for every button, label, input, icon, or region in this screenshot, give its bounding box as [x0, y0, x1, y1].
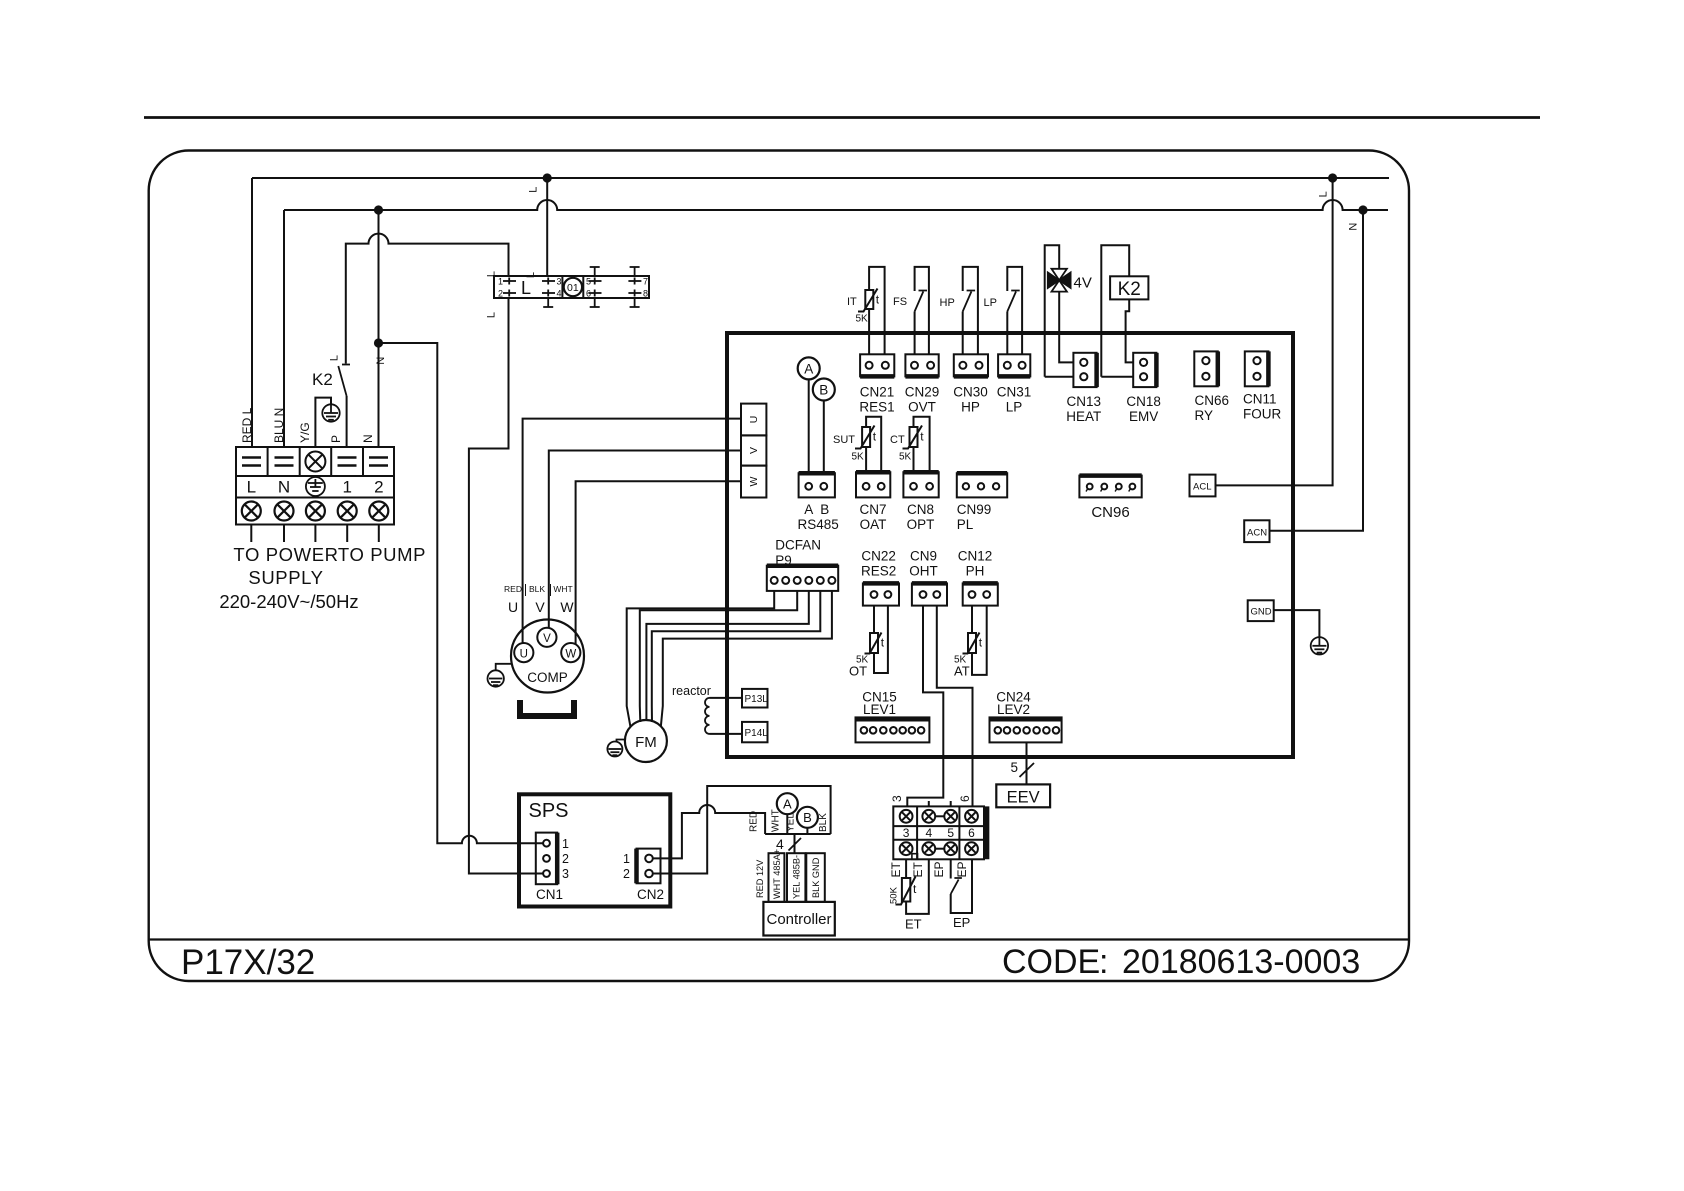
wire L bus dot down to fuse pin3 — [546, 178, 548, 276]
svg-text:LEV2: LEV2 — [997, 702, 1030, 717]
svg-text:OVT: OVT — [908, 400, 936, 415]
terminal box W on board — [741, 466, 766, 498]
wire CN9 pin2 to ET terminal 6 — [937, 606, 973, 807]
switch LP loop — [1007, 267, 1022, 354]
wire L bus — [252, 177, 1389, 179]
box P13L — [742, 689, 768, 708]
svg-text:220-240V~/50Hz: 220-240V~/50Hz — [219, 591, 358, 612]
fuse block stub terminals pins 5-8 and 4 — [543, 267, 639, 307]
box ACL — [1190, 475, 1216, 497]
relay coil K2 box — [1110, 276, 1148, 299]
svg-text:3: 3 — [890, 795, 904, 802]
svg-text:RES2: RES2 — [861, 564, 896, 579]
svg-text:CN2: CN2 — [637, 887, 664, 902]
svg-text:B: B — [820, 502, 829, 517]
svg-text:CN31: CN31 — [997, 385, 1032, 400]
reactor coil — [705, 698, 710, 734]
wire ACN to N bus — [1270, 210, 1364, 531]
svg-text:6: 6 — [958, 795, 972, 802]
svg-text:CN1: CN1 — [536, 887, 563, 902]
svg-text:L: L — [486, 312, 498, 318]
switch HP blade — [963, 291, 975, 312]
svg-text:B: B — [803, 810, 812, 825]
connector CN96 — [1079, 476, 1141, 498]
svg-text:Y/G: Y/G — [298, 422, 312, 443]
svg-text:ET: ET — [905, 917, 922, 932]
compressor COMP — [511, 620, 584, 693]
earth symbol at GND — [1311, 637, 1328, 655]
svg-text:2: 2 — [374, 478, 383, 497]
junction dot N branch — [374, 338, 383, 347]
svg-text:HP: HP — [940, 297, 955, 309]
wire COMP W — [576, 481, 741, 644]
svg-text:OHT: OHT — [909, 564, 938, 579]
svg-text:1: 1 — [498, 277, 503, 287]
svg-text:01: 01 — [567, 282, 579, 294]
fuse filter block FL — [494, 276, 649, 298]
svg-text:CN96: CN96 — [1091, 504, 1129, 521]
svg-text:HEAT: HEAT — [1066, 409, 1101, 424]
terminal block ET/EP top stubs — [928, 801, 930, 806]
svg-text:CN22: CN22 — [861, 549, 896, 564]
controller terminal boxes — [769, 853, 825, 902]
wire 4V left to CN13 pin2 — [1045, 376, 1074, 378]
svg-text:V: V — [748, 447, 760, 454]
thermistor OT loop — [874, 606, 888, 673]
svg-text:SPS: SPS — [529, 800, 569, 822]
svg-text:5: 5 — [586, 277, 591, 287]
svg-text:OAT: OAT — [860, 517, 887, 532]
wire N bus with hops — [284, 200, 1388, 210]
svg-text:CN12: CN12 — [958, 549, 993, 564]
svg-text:1: 1 — [562, 837, 569, 851]
svg-text:CN11: CN11 — [1243, 392, 1277, 407]
svg-text:6: 6 — [968, 826, 975, 840]
svg-text:SUT: SUT — [833, 434, 855, 446]
svg-text:L: L — [521, 278, 531, 298]
switch FS blade — [915, 291, 927, 312]
svg-text:1: 1 — [623, 852, 630, 866]
terminal block ET/EP screws row1 — [900, 810, 978, 823]
svg-text:WHT 485A+: WHT 485A+ — [772, 849, 782, 899]
svg-text:CN21: CN21 — [860, 385, 895, 400]
svg-text:A: A — [783, 797, 792, 812]
wire A to RS485 — [808, 379, 810, 473]
svg-text:U: U — [748, 416, 760, 424]
svg-text:BLK GND: BLK GND — [811, 857, 821, 898]
svg-text:U: U — [520, 648, 528, 660]
connector CN99 — [957, 473, 1007, 497]
svg-text:Controller: Controller — [766, 911, 831, 928]
svg-text:FS: FS — [893, 296, 907, 308]
svg-text:4: 4 — [925, 826, 932, 840]
terminal box U on board — [741, 404, 766, 436]
controller wire bar — [765, 833, 831, 835]
controller box — [763, 902, 834, 936]
svg-text:3: 3 — [903, 826, 910, 840]
thermistor AT loop — [972, 606, 987, 675]
circle B — [797, 807, 818, 828]
fan motor FM — [625, 720, 667, 762]
svg-text:P13L: P13L — [745, 694, 769, 705]
terminal block top row link symbols — [242, 458, 388, 466]
thermistor CT loop — [914, 417, 930, 473]
wire LEV2 to EEV with slash 5 — [1026, 742, 1028, 784]
thermistor SUT loop — [866, 417, 881, 473]
PCB board outline — [727, 333, 1293, 757]
wire P9 pin1 to FM — [627, 591, 775, 727]
svg-text:ET: ET — [889, 861, 903, 877]
svg-text:SUPPLY: SUPPLY — [248, 567, 323, 588]
svg-text:50K: 50K — [889, 886, 900, 904]
svg-text:A: A — [804, 361, 813, 376]
svg-text:5K: 5K — [852, 452, 865, 463]
terminal block ground screw top row — [305, 452, 325, 472]
svg-text:6: 6 — [586, 289, 591, 299]
wire N branch vertical to dot and terminal 2 — [378, 210, 380, 447]
junction dot N bus right — [1358, 205, 1367, 214]
wire N column down to terminal block — [283, 210, 285, 447]
svg-text:reactor: reactor — [672, 684, 711, 698]
svg-text:LP: LP — [984, 297, 997, 309]
svg-text:RES1: RES1 — [859, 400, 894, 415]
switch LP blade — [1007, 291, 1019, 312]
svg-text:N: N — [361, 434, 375, 443]
svg-text:L: L — [525, 272, 537, 278]
connector CN22 — [863, 583, 899, 605]
cable to controller with slash 4 — [794, 834, 796, 853]
switch FS loop — [915, 267, 929, 354]
svg-text:2: 2 — [498, 289, 503, 299]
wire ACL to L bus — [1216, 178, 1333, 485]
svg-text:L: L — [1317, 191, 1329, 197]
junction dot N bus left — [374, 205, 383, 214]
svg-text:TO POWER: TO POWER — [233, 544, 338, 565]
COMP mounting bracket — [520, 700, 574, 716]
fuse block circle 01 — [564, 278, 582, 296]
svg-text:COMP: COMP — [527, 670, 568, 685]
terminal block TB1 — [236, 447, 394, 525]
terminal block bottom screws — [242, 502, 388, 521]
wire from N dot to SPS CN1 pin1 (with hop) — [379, 343, 544, 843]
svg-text:W: W — [560, 599, 574, 615]
svg-text:3: 3 — [557, 277, 562, 287]
svg-text:EP: EP — [953, 915, 970, 930]
svg-text:EEV: EEV — [1007, 789, 1040, 807]
svg-text:V: V — [535, 599, 545, 615]
switch K2 — [342, 364, 350, 366]
thermistor AT symbol — [963, 633, 980, 654]
svg-text:5: 5 — [1011, 760, 1019, 775]
wire P9 pin3 to FM — [640, 591, 797, 722]
svg-text:BLK: BLK — [529, 584, 545, 594]
connector CN31 — [998, 354, 1030, 376]
connector RS485 — [799, 473, 835, 497]
svg-text:U: U — [508, 599, 518, 615]
svg-text:RY: RY — [1195, 408, 1214, 423]
K2 relay loop wires — [1101, 245, 1133, 377]
thermistor SUT symbol — [855, 426, 875, 449]
wire fuse pin2 down to SPS CN1 pin3 — [469, 298, 543, 874]
wire B to RS485 — [823, 401, 825, 474]
svg-text:V: V — [543, 633, 551, 645]
SPS box — [519, 794, 670, 906]
svg-text:L: L — [247, 478, 256, 497]
wire COMP V — [549, 451, 741, 629]
svg-text:WHT: WHT — [553, 584, 572, 594]
svg-text:RED 12V: RED 12V — [755, 859, 765, 898]
svg-text:BLK: BLK — [818, 813, 829, 832]
junction dot L bus right — [1328, 173, 1337, 182]
wire 3 L feed to K2 and fuse pin1 (hop over N) — [346, 234, 509, 364]
svg-text:CN13: CN13 — [1067, 394, 1102, 409]
svg-text:WHT: WHT — [771, 809, 782, 832]
wire Y/G ground branch — [315, 398, 331, 447]
connector CN7 — [856, 472, 890, 497]
terminal block ET/EP outline — [893, 806, 986, 859]
svg-text:EMV: EMV — [1129, 409, 1158, 424]
wire P9 pin6 to FM — [661, 591, 832, 727]
4V valve loop wires — [1045, 245, 1074, 377]
connector CN9 — [912, 583, 947, 605]
wire P9 pin5 to FM — [652, 591, 821, 722]
svg-text:CN30: CN30 — [953, 385, 988, 400]
svg-text:OPT: OPT — [907, 517, 935, 532]
wire P9 pin4 to FM — [646, 591, 808, 720]
wire GND to earth — [1274, 610, 1320, 637]
connector CN66 — [1194, 351, 1218, 386]
EEV box — [996, 784, 1050, 807]
circle A — [777, 793, 798, 814]
connector P9 — [767, 566, 838, 591]
wire reactor to P13L — [710, 697, 743, 699]
svg-text:RED L: RED L — [240, 407, 254, 443]
junction dot L bus to fuse — [543, 173, 552, 182]
thermistor ET 50K loop — [906, 859, 929, 914]
svg-text:LEV1: LEV1 — [863, 702, 896, 717]
terminal block ET/EP screws row3 — [900, 842, 978, 859]
svg-text:ET: ET — [911, 861, 925, 877]
svg-text:P14L: P14L — [745, 728, 769, 739]
svg-text:CN99: CN99 — [957, 502, 992, 517]
fuse block pin ticks 1-8 — [503, 278, 641, 297]
connector CN21 — [860, 354, 894, 376]
svg-text:CN29: CN29 — [905, 385, 940, 400]
svg-text:FOUR: FOUR — [1243, 407, 1281, 422]
earth symbol near K2 — [322, 404, 339, 421]
svg-text:CT: CT — [890, 434, 905, 446]
connector CN1 — [536, 833, 557, 885]
thermistor ET symbol — [896, 877, 916, 905]
svg-text:5: 5 — [947, 826, 954, 840]
svg-text:L: L — [528, 187, 540, 193]
wire L column down to terminal block — [251, 178, 253, 447]
svg-text:3: 3 — [562, 867, 569, 881]
connector CN18 — [1133, 353, 1156, 387]
svg-text:P17X/32: P17X/32 — [181, 943, 315, 982]
svg-text:N: N — [1347, 223, 1359, 231]
box GND — [1248, 600, 1274, 621]
svg-text:PL: PL — [957, 517, 974, 532]
svg-text:EP: EP — [932, 861, 946, 877]
switch HP loop — [963, 267, 978, 354]
svg-text:ACN: ACN — [1247, 528, 1267, 539]
svg-text:FM: FM — [635, 734, 657, 751]
switch EP loop — [951, 859, 972, 913]
svg-text:N: N — [375, 357, 387, 365]
wire reactor to P14L — [710, 733, 743, 735]
svg-text:TO PUMP: TO PUMP — [338, 544, 426, 565]
title bar separator — [149, 938, 1409, 940]
svg-text:CN18: CN18 — [1126, 394, 1161, 409]
svg-text:B: B — [819, 383, 828, 398]
svg-text:GND: GND — [1251, 607, 1272, 618]
svg-text:2: 2 — [562, 852, 569, 866]
svg-text:N: N — [278, 478, 290, 497]
svg-text:5K: 5K — [899, 452, 912, 463]
earth symbol at COMP — [496, 664, 512, 671]
svg-text:LP: LP — [1006, 400, 1023, 415]
svg-text:1: 1 — [342, 478, 351, 497]
terminal box V on board — [741, 435, 766, 465]
thermistor OT symbol — [865, 633, 882, 654]
svg-text:DCFAN: DCFAN — [775, 538, 821, 553]
wire K2 left to CN18 pin2 — [1101, 376, 1133, 378]
svg-text:8: 8 — [643, 289, 648, 299]
box ACN — [1244, 520, 1269, 542]
thermistor CT symbol — [903, 426, 923, 449]
svg-text:4V: 4V — [1074, 275, 1092, 292]
svg-text:RED: RED — [749, 811, 760, 832]
terminal block bottom stubs — [251, 525, 378, 543]
thermistor IT loop — [869, 267, 885, 354]
svg-text:K2: K2 — [312, 370, 333, 389]
svg-text:HP: HP — [961, 400, 980, 415]
svg-text:A: A — [804, 502, 813, 517]
circle A on board — [798, 357, 820, 379]
thermistor IT symbol — [858, 289, 878, 312]
svg-text:PH: PH — [966, 564, 985, 579]
fuse block pin numbers — [498, 277, 648, 299]
svg-text:4: 4 — [557, 289, 562, 299]
connector CN29 — [905, 354, 938, 376]
terminal block earth symbol middle — [306, 477, 325, 496]
svg-text:CODE:20180613-0003: CODE:20180613-0003 — [1002, 943, 1360, 981]
svg-text:K2: K2 — [1118, 279, 1141, 300]
svg-text:CN7: CN7 — [859, 502, 886, 517]
earth symbol at FM — [617, 740, 626, 743]
svg-text:RED: RED — [504, 584, 522, 594]
connector CN13 — [1073, 353, 1096, 387]
svg-text:5K: 5K — [856, 314, 869, 325]
svg-text:P: P — [329, 435, 343, 443]
svg-text:L: L — [486, 271, 498, 277]
svg-text:AT: AT — [954, 664, 970, 679]
wire CN9 pin1 to ET terminal 3 — [907, 606, 943, 807]
wire CN2 pin1 to controller RED (hop) — [653, 805, 765, 858]
svg-text:IT: IT — [847, 296, 857, 308]
top rule — [144, 116, 1540, 119]
switch EP blade — [951, 878, 962, 894]
connector CN11 — [1245, 351, 1269, 386]
svg-text:OT: OT — [849, 664, 867, 679]
svg-text:EP: EP — [955, 861, 969, 877]
connector CN8 — [903, 472, 938, 497]
connector CN30 — [954, 354, 988, 376]
svg-text:YEL: YEL — [786, 813, 797, 832]
svg-text:W: W — [565, 648, 576, 660]
svg-text:CN9: CN9 — [910, 549, 937, 564]
connector CN2 — [637, 849, 661, 884]
box P14L — [742, 722, 768, 742]
4-way valve symbol 4V — [1048, 269, 1071, 292]
svg-text:CN8: CN8 — [907, 502, 934, 517]
svg-text:W: W — [748, 476, 760, 486]
svg-text:YEL 485B-: YEL 485B- — [792, 855, 802, 899]
svg-text:RS485: RS485 — [798, 517, 839, 532]
wire CN2 pin2 to controller BLK via top — [653, 786, 831, 874]
svg-text:ACL: ACL — [1193, 482, 1211, 493]
svg-text:BLU N: BLU N — [272, 408, 286, 443]
circle B on board — [813, 379, 835, 401]
outer frame rounded border — [149, 151, 1409, 982]
svg-text:7: 7 — [643, 277, 648, 287]
connector CN12 — [963, 583, 998, 605]
wire COMP U — [523, 419, 741, 644]
svg-text:2: 2 — [623, 867, 630, 881]
svg-text:CN66: CN66 — [1195, 393, 1230, 408]
svg-text:L: L — [329, 355, 341, 361]
